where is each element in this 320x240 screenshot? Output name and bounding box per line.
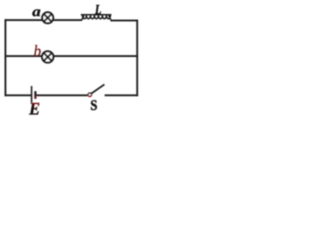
switch S lever bbox=[91, 84, 104, 93]
battery red artifact bbox=[35, 96, 37, 99]
wire middle segment left bbox=[5, 55, 42, 57]
label S bbox=[91, 100, 97, 110]
wire top left segment bbox=[5, 19, 43, 21]
wire top middle segment bbox=[54, 19, 83, 21]
wire left vertical bbox=[5, 19, 7, 96]
label b bbox=[34, 45, 40, 56]
inductor L core bar bbox=[81, 14, 112, 15]
battery E short plate bbox=[34, 91, 36, 99]
wire middle segment right bbox=[54, 55, 139, 57]
lamp a bbox=[42, 12, 53, 23]
wire bottom left segment bbox=[5, 94, 32, 96]
wire right vertical bbox=[136, 20, 138, 97]
inductor exit wire bbox=[109, 16, 112, 21]
wire top right segment bbox=[111, 20, 139, 22]
inductor entry wire bbox=[82, 16, 85, 21]
battery E long plate bbox=[31, 86, 33, 103]
label L bbox=[95, 5, 101, 14]
label E bbox=[29, 103, 39, 115]
switch hinge red arc bbox=[88, 95, 91, 97]
lamp b bbox=[42, 51, 53, 62]
wire bottom middle segment bbox=[36, 94, 87, 96]
inductor L coil loops bbox=[82, 15, 110, 19]
label a bbox=[32, 9, 40, 16]
switch S hinge bbox=[88, 93, 91, 96]
wire bottom right segment bbox=[105, 94, 139, 96]
